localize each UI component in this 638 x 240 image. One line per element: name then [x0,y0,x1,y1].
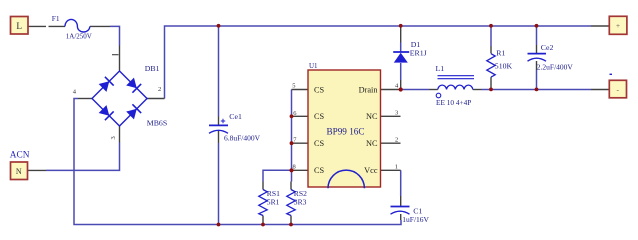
svg-text:DB1: DB1 [145,64,160,73]
svg-text:MB6S: MB6S [147,119,167,128]
svg-text:ACN: ACN [10,150,30,160]
svg-text:F1: F1 [52,14,60,23]
svg-text:N: N [16,167,22,176]
svg-text:1: 1 [395,164,398,171]
svg-text:BP99 16C: BP99 16C [326,127,364,137]
svg-text:ER1J: ER1J [410,49,427,58]
svg-text:U1: U1 [309,62,318,70]
svg-text:Vcc: Vcc [364,166,378,175]
svg-text:L1: L1 [436,64,445,73]
svg-text:1uF/16V: 1uF/16V [402,215,429,224]
svg-text:+: + [616,21,620,30]
svg-text:3: 3 [395,109,398,116]
svg-text:510K: 510K [495,61,513,70]
svg-text:2: 2 [395,137,398,144]
svg-text:CS: CS [314,166,325,175]
svg-text:Ce1: Ce1 [229,112,242,121]
svg-text:CS: CS [314,85,325,94]
svg-text:3: 3 [110,136,117,139]
svg-text:R1: R1 [496,49,505,58]
svg-text:6.8uF/400V: 6.8uF/400V [224,134,261,143]
svg-text:2: 2 [158,86,161,93]
svg-text:2.2uF/400V: 2.2uF/400V [537,62,574,71]
svg-text:L: L [16,21,22,31]
svg-text:CS: CS [314,139,325,148]
svg-text:5: 5 [292,82,295,89]
svg-text:NC: NC [366,112,378,121]
svg-text:5R1: 5R1 [267,197,280,206]
svg-text:Drain: Drain [359,85,379,94]
svg-text:EE 10 4+4P: EE 10 4+4P [436,98,471,107]
svg-text:NC: NC [366,139,378,148]
svg-text:1A/250V: 1A/250V [66,33,92,41]
svg-text:CS: CS [314,112,325,121]
svg-text:3R3: 3R3 [294,197,307,206]
svg-text:8: 8 [293,164,296,171]
svg-text:Ce2: Ce2 [541,43,554,52]
